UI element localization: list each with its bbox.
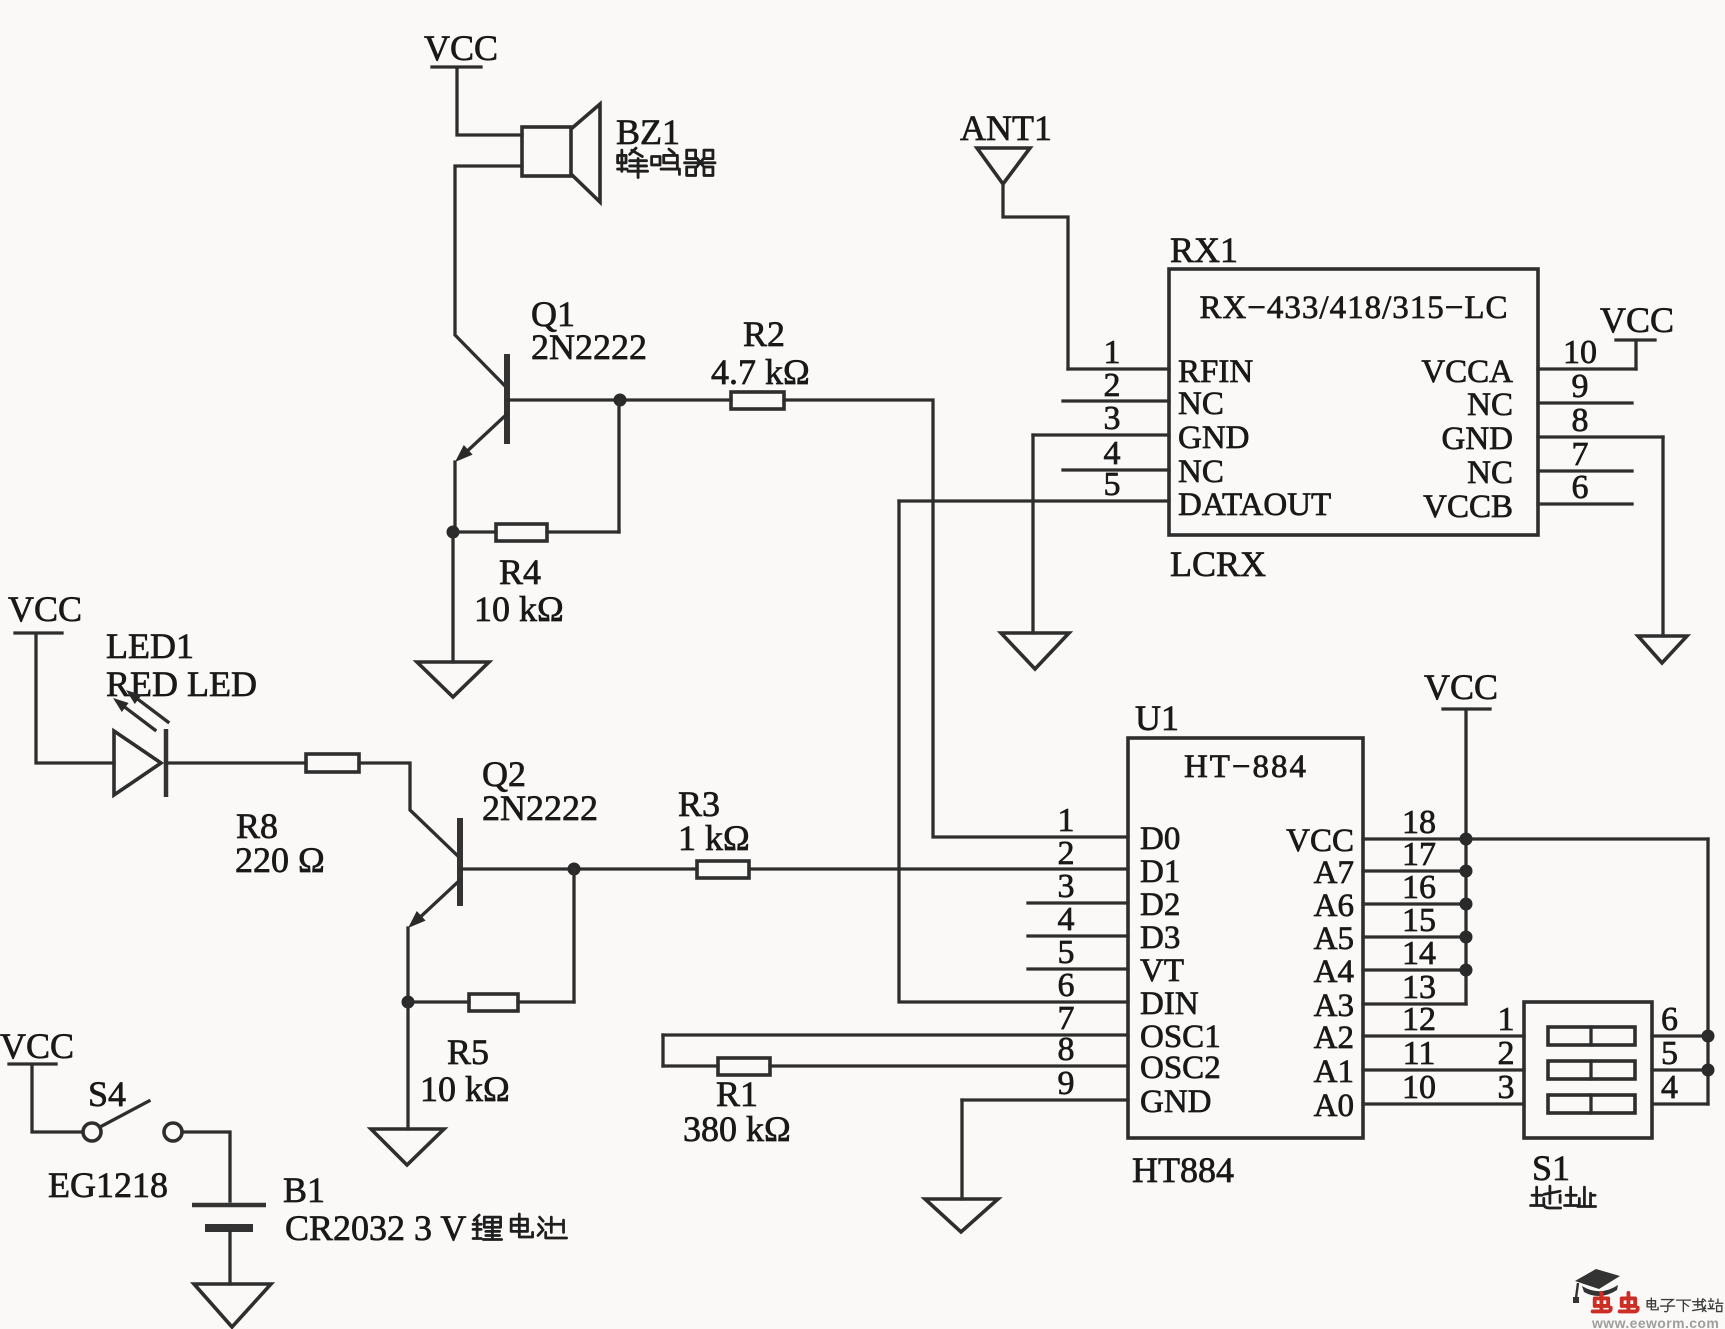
wire R5 node to ground — [406, 1002, 409, 1129]
pin 16 A6 — [1314, 869, 1466, 924]
wire R5 to Q2 base node — [572, 869, 575, 1002]
pin 15 A5 — [1314, 902, 1466, 957]
svg-text:4: 4 — [1661, 1069, 1678, 1106]
svg-text:EG1218: EG1218 — [48, 1165, 168, 1205]
pin 6 VCCB — [1423, 469, 1632, 525]
svg-text:HT884: HT884 — [1132, 1150, 1234, 1190]
svg-text:A0: A0 — [1314, 1088, 1354, 1124]
svg-text:R5: R5 — [447, 1032, 489, 1072]
svg-text:NC: NC — [1178, 454, 1224, 490]
svg-text:DIN: DIN — [1140, 986, 1199, 1022]
svg-text:7: 7 — [1572, 436, 1589, 473]
pin 10 VCCA — [1421, 334, 1636, 390]
svg-text:1 kΩ: 1 kΩ — [678, 818, 750, 858]
S1 element row2 — [1548, 1061, 1635, 1079]
transistor Q2 2N2222 — [408, 818, 460, 928]
wire VCC to buzzer top terminal — [457, 69, 522, 135]
svg-text:NC: NC — [1467, 455, 1513, 491]
pin 2 NC — [1063, 367, 1224, 422]
svg-text:GND: GND — [1140, 1084, 1212, 1120]
label CR2032 3 V 锂电池 — [285, 1208, 567, 1248]
svg-text:VCC: VCC — [8, 589, 82, 629]
wire LED cathode to R8 — [166, 761, 306, 764]
pin 18 VCC — [1286, 804, 1708, 859]
svg-text:2N2222: 2N2222 — [531, 327, 647, 367]
power VCC (battery branch) — [0, 1026, 74, 1066]
wire buzzer bottom terminal to Q1 collector — [455, 166, 522, 388]
LED LED1 — [114, 729, 166, 797]
power VCC (buzzer branch) — [424, 28, 498, 68]
switch S4 — [83, 1101, 182, 1141]
pin 7 OSC1 — [663, 1000, 1221, 1055]
svg-text:D2: D2 — [1140, 887, 1180, 923]
wire VCC rail down to A3 — [1464, 839, 1467, 1004]
wire DATAOUT to U1 DIN — [899, 501, 1128, 1002]
svg-text:HT−884: HT−884 — [1184, 749, 1308, 785]
svg-text:ANT1: ANT1 — [960, 108, 1052, 148]
wire Q2 emitter to node — [406, 928, 409, 1002]
LED light arrows — [113, 690, 168, 730]
svg-text:5: 5 — [1661, 1035, 1678, 1072]
svg-text:10: 10 — [1402, 1069, 1436, 1106]
svg-text:8: 8 — [1572, 402, 1589, 439]
wire U1 GND to ground — [960, 1100, 963, 1199]
pin 1 D0 — [1058, 802, 1181, 857]
svg-text:B1: B1 — [283, 1170, 325, 1210]
resistor R1 — [663, 1035, 770, 1075]
svg-text:VCC: VCC — [424, 28, 498, 68]
wire Q1 base — [507, 398, 731, 401]
pin 8 OSC2 — [770, 1031, 1221, 1086]
svg-text:14: 14 — [1402, 935, 1436, 972]
svg-text:VCC: VCC — [1600, 300, 1674, 340]
wire emitter node to ground — [451, 532, 454, 662]
svg-text:D1: D1 — [1140, 854, 1180, 890]
DIP switch S1 box — [1524, 1002, 1652, 1138]
svg-text:15: 15 — [1402, 902, 1436, 939]
svg-text:GND: GND — [1442, 421, 1514, 457]
node A5 — [1460, 931, 1473, 944]
svg-text:2: 2 — [1498, 1035, 1515, 1072]
svg-text:2N2222: 2N2222 — [482, 788, 598, 828]
svg-text:RFIN: RFIN — [1178, 354, 1253, 390]
svg-text:LED1: LED1 — [106, 626, 194, 666]
pin 14 A4 — [1314, 935, 1466, 990]
S1 element row1 — [1548, 1027, 1635, 1045]
wire VCC to switch — [32, 1066, 83, 1132]
label 蜂鸣器 — [618, 148, 715, 177]
svg-text:2: 2 — [1058, 835, 1075, 872]
watermark 虫虫 red — [1593, 1293, 1638, 1311]
svg-text:LCRX: LCRX — [1170, 544, 1266, 584]
svg-text:3: 3 — [1104, 400, 1121, 437]
svg-text:BZ1: BZ1 — [616, 112, 680, 152]
svg-text:9: 9 — [1058, 1065, 1075, 1102]
ground (battery) — [194, 1284, 271, 1327]
svg-text:A5: A5 — [1314, 921, 1354, 957]
IC U1 box — [1128, 738, 1363, 1138]
svg-text:VCC: VCC — [1286, 823, 1354, 859]
wire VCC rail to S1 right side — [1706, 839, 1709, 1104]
transistor Q1 2N2222 — [455, 354, 507, 462]
svg-text:4.7 kΩ: 4.7 kΩ — [711, 352, 810, 392]
pin 17 A7 — [1314, 836, 1466, 891]
node A7 — [1460, 865, 1473, 878]
svg-text:16: 16 — [1402, 869, 1436, 906]
svg-text:www.eeworm.com: www.eeworm.com — [1591, 1315, 1719, 1329]
module RX1 box — [1169, 269, 1538, 535]
svg-text:3: 3 — [1058, 868, 1075, 905]
wire R3 to U1 pin2 D1 — [749, 867, 1128, 870]
S1 pin 5 — [1652, 1035, 1708, 1072]
ground (RX1 pin3) — [1001, 633, 1069, 669]
node Q2 emitter / R5 — [402, 996, 415, 1009]
pin 3 GND — [1033, 400, 1250, 456]
power VCC (RX1 VCCA) — [1600, 300, 1674, 369]
svg-text:5: 5 — [1104, 466, 1121, 503]
svg-text:RED LED: RED LED — [106, 664, 257, 704]
svg-text:10: 10 — [1563, 334, 1597, 371]
svg-text:11: 11 — [1403, 1035, 1436, 1072]
svg-text:R4: R4 — [499, 552, 541, 592]
svg-text:4: 4 — [1058, 901, 1075, 938]
node Q2 base / R5 — [568, 863, 581, 876]
node S1 pin6 — [1702, 1030, 1715, 1043]
svg-text:1: 1 — [1058, 802, 1075, 839]
wire battery to ground — [228, 1232, 231, 1284]
S1 pin 6 — [1652, 1001, 1708, 1038]
wire R8 to Q2 collector — [359, 763, 460, 858]
node Q1 base / R4 feedback — [614, 394, 627, 407]
resistor R8 — [306, 754, 359, 772]
svg-text:9: 9 — [1572, 368, 1589, 405]
svg-text:1: 1 — [1104, 334, 1121, 371]
svg-text:VCC: VCC — [0, 1026, 74, 1066]
wire RX1 pin8 to ground — [1661, 437, 1664, 636]
pin 13 A3 — [1314, 969, 1466, 1024]
svg-text:NC: NC — [1178, 386, 1224, 422]
svg-text:NC: NC — [1467, 387, 1513, 423]
svg-text:S1: S1 — [1532, 1148, 1570, 1188]
power VCC (U1 pin18) — [1424, 667, 1498, 839]
svg-text:RX1: RX1 — [1170, 230, 1238, 270]
ground (U1 GND) — [925, 1199, 998, 1232]
svg-text:R2: R2 — [743, 314, 785, 354]
ground (RX1 pin8) — [1638, 636, 1687, 663]
svg-text:VT: VT — [1140, 953, 1184, 989]
wire R4 to base node — [617, 400, 620, 532]
resistor R2 — [731, 392, 784, 409]
wire R2 to U1 pin1 D0 — [784, 400, 1128, 837]
svg-text:U1: U1 — [1135, 698, 1179, 738]
svg-text:S4: S4 — [88, 1074, 126, 1114]
pin 11 A1 — [1314, 1035, 1524, 1090]
battery B1 — [192, 1205, 266, 1228]
svg-text:DATAOUT: DATAOUT — [1178, 487, 1331, 523]
wire Q1 emitter to node — [453, 462, 456, 532]
svg-text:D0: D0 — [1140, 821, 1180, 857]
svg-text:6: 6 — [1661, 1001, 1678, 1038]
wire VCC to LED anode — [36, 636, 114, 763]
resistor R5 — [408, 994, 574, 1011]
resistor R3 — [697, 861, 749, 878]
svg-text:VCCA: VCCA — [1421, 354, 1513, 390]
pin 5 VT — [1028, 934, 1184, 989]
svg-text:OSC2: OSC2 — [1140, 1050, 1221, 1086]
S1 pin 4 — [1652, 1069, 1708, 1106]
S1 element row3 — [1548, 1095, 1635, 1113]
wire Q2 base — [460, 867, 697, 870]
svg-text:R1: R1 — [716, 1074, 758, 1114]
node S1 pin5 — [1702, 1064, 1715, 1077]
node A4 — [1460, 964, 1473, 977]
watermark 电子下载站 — [1647, 1298, 1723, 1312]
svg-text:3: 3 — [1498, 1069, 1515, 1106]
svg-text:A6: A6 — [1314, 888, 1354, 924]
node A6 — [1460, 898, 1473, 911]
svg-text:8: 8 — [1058, 1031, 1075, 1068]
node Q1 emitter / R4 — [447, 526, 460, 539]
pin 6 DIN — [1058, 967, 1199, 1022]
svg-text:6: 6 — [1572, 469, 1589, 506]
pin 4 D3 — [1028, 901, 1180, 956]
svg-text:A7: A7 — [1314, 855, 1354, 891]
svg-text:12: 12 — [1402, 1001, 1436, 1038]
wire switch to battery — [182, 1132, 230, 1201]
wire antenna to RFIN — [1003, 184, 1068, 369]
svg-text:5: 5 — [1058, 934, 1075, 971]
buzzer BZ1 — [522, 104, 600, 202]
node VCC/pin18 — [1460, 833, 1473, 846]
svg-text:D3: D3 — [1140, 920, 1180, 956]
pin 1 RFIN — [1068, 334, 1253, 390]
svg-text:RX−433/418/315−LC: RX−433/418/315−LC — [1199, 290, 1508, 326]
svg-text:VCC: VCC — [1424, 667, 1498, 707]
power VCC (LED branch) — [8, 589, 82, 633]
ground (Q2 emitter) — [371, 1129, 444, 1165]
pin 5 DATAOUT — [899, 466, 1331, 523]
svg-text:17: 17 — [1402, 836, 1436, 873]
ground (Q1 emitter) — [417, 662, 489, 697]
pin 3 D2 — [1028, 868, 1180, 923]
watermark graduation cap — [1573, 1269, 1620, 1303]
svg-text:A1: A1 — [1314, 1054, 1354, 1090]
pin 9 NC — [1467, 368, 1632, 423]
svg-text:1: 1 — [1498, 1001, 1515, 1038]
svg-text:A4: A4 — [1314, 954, 1354, 990]
svg-text:2: 2 — [1104, 367, 1121, 404]
pin 4 NC — [1063, 435, 1224, 490]
svg-text:A2: A2 — [1314, 1020, 1354, 1056]
antenna ANT1 — [977, 148, 1030, 184]
pin 7 NC — [1467, 436, 1632, 491]
svg-text:10 kΩ: 10 kΩ — [420, 1069, 510, 1109]
pin 9 GND — [962, 1065, 1212, 1120]
pin 8 GND — [1442, 402, 1664, 457]
svg-text:A3: A3 — [1314, 988, 1354, 1024]
pin 12 A2 — [1314, 1001, 1524, 1056]
resistor R4 — [455, 524, 619, 541]
svg-text:380 kΩ: 380 kΩ — [683, 1109, 791, 1149]
pin 10 A0 — [1314, 1069, 1524, 1124]
svg-text:6: 6 — [1058, 967, 1075, 1004]
svg-text:GND: GND — [1178, 420, 1250, 456]
svg-text:10 kΩ: 10 kΩ — [474, 589, 564, 629]
svg-text:CR2032 3 V: CR2032 3 V — [285, 1208, 466, 1248]
svg-text:VCCB: VCCB — [1423, 489, 1513, 525]
label 地址 — [1531, 1186, 1596, 1208]
svg-text:220 Ω: 220 Ω — [235, 840, 325, 880]
pin 2 D1 — [1058, 835, 1181, 890]
wire RX1 GND pin3 to ground — [1031, 435, 1034, 633]
